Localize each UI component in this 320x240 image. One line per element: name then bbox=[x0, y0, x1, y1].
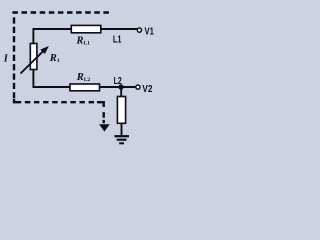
svg-text:V2: V2 bbox=[142, 84, 152, 95]
svg-text:L1: L1 bbox=[113, 34, 122, 45]
svg-text:L2: L2 bbox=[114, 76, 123, 87]
svg-text:I: I bbox=[3, 54, 9, 65]
svg-text:V1: V1 bbox=[145, 26, 155, 37]
